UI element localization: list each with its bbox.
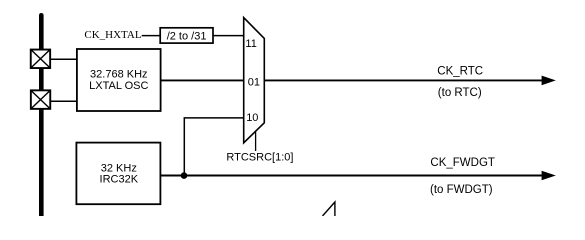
junction dot on IRC32K output xyxy=(181,172,188,179)
wire crystal X1 to LXTAL OSC xyxy=(51,58,78,60)
svg-text:32.768 KHz: 32.768 KHz xyxy=(90,69,147,81)
divider box /2 to /31 xyxy=(160,28,213,43)
mux select wire xyxy=(255,131,257,151)
arrowhead CK_RTC xyxy=(542,76,556,86)
wire LXTAL OSC to mux input 01 xyxy=(161,79,244,81)
second mux (partially visible at bottom) xyxy=(323,202,335,216)
crystal X2 (box with X) xyxy=(31,90,50,109)
svg-text:01: 01 xyxy=(248,77,260,89)
svg-text:(to FWDGT): (to FWDGT) xyxy=(430,184,493,196)
wire mux output to CK_RTC arrow xyxy=(264,79,542,81)
bus: thick vertical line (LXTAL pins rail) xyxy=(39,15,44,216)
svg-text:11: 11 xyxy=(245,38,256,50)
svg-text:CK_RTC: CK_RTC xyxy=(437,66,483,78)
mux RTCSRC selector (trapezoid) xyxy=(244,18,265,143)
wire crystal X2 to LXTAL OSC xyxy=(51,100,78,102)
wire divider to mux input 11 xyxy=(213,35,244,37)
wire CK_HXTAL to divider xyxy=(142,35,161,37)
svg-text:10: 10 xyxy=(246,112,258,124)
wire junction up to mux input 10 xyxy=(184,118,244,176)
wire IRC32K output to CK_FWDGT arrow xyxy=(161,175,543,177)
svg-text:(to RTC): (to RTC) xyxy=(438,87,482,99)
svg-text:CK_HXTAL: CK_HXTAL xyxy=(84,29,141,41)
arrowhead CK_FWDGT xyxy=(542,171,556,181)
svg-text:RTCSRC[1:0]: RTCSRC[1:0] xyxy=(226,151,293,163)
svg-text:CK_FWDGT: CK_FWDGT xyxy=(430,157,495,169)
oscillator box LXTAL OSC xyxy=(77,49,161,111)
crystal X1 (box with X) xyxy=(31,50,50,69)
svg-text:LXTAL OSC: LXTAL OSC xyxy=(89,80,148,92)
oscillator box IRC32K xyxy=(76,143,160,205)
svg-text:/2 to /31: /2 to /31 xyxy=(167,30,207,42)
svg-text:IRC32K: IRC32K xyxy=(100,173,139,185)
